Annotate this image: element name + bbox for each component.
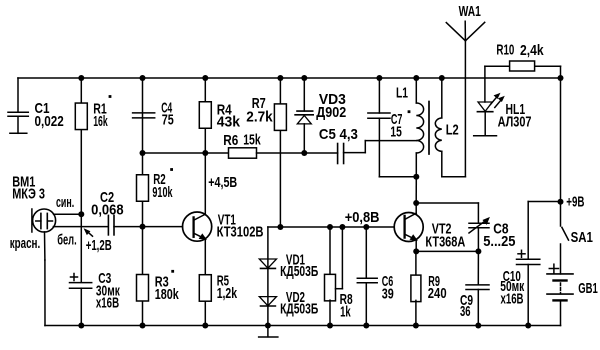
svg-text:L1: L1 — [396, 86, 408, 102]
svg-text:16k: 16k — [93, 114, 108, 130]
svg-text:+9В: +9В — [566, 194, 584, 210]
svg-text:КД503Б: КД503Б — [280, 264, 318, 280]
svg-text:R10: R10 — [496, 43, 514, 59]
svg-text:2,4k: 2,4k — [520, 43, 544, 59]
svg-text:красн.: красн. — [10, 236, 41, 252]
svg-text:75: 75 — [162, 112, 174, 128]
svg-text:х16В: х16В — [501, 291, 524, 307]
svg-text:КД503Б: КД503Б — [280, 301, 318, 317]
svg-text:R6: R6 — [223, 133, 238, 149]
svg-text:0,022: 0,022 — [35, 114, 64, 130]
svg-text:39: 39 — [382, 287, 394, 303]
svg-text:0,068: 0,068 — [91, 203, 124, 219]
svg-text:АЛ307: АЛ307 — [498, 115, 532, 131]
svg-text:х16В: х16В — [96, 296, 119, 312]
svg-text:15: 15 — [390, 125, 401, 141]
svg-text:910k: 910k — [152, 185, 173, 201]
svg-text:Д902: Д902 — [316, 105, 346, 121]
svg-text:син.: син. — [56, 195, 74, 211]
svg-text:180k: 180k — [155, 287, 180, 303]
svg-text:5...25: 5...25 — [483, 234, 515, 250]
svg-text:43k: 43k — [217, 115, 241, 131]
svg-text:SA1: SA1 — [571, 230, 593, 246]
svg-text:15k: 15k — [243, 132, 261, 148]
svg-text:GB1: GB1 — [578, 281, 598, 297]
svg-text:+0,8В: +0,8В — [345, 210, 380, 226]
svg-text:КТ368А: КТ368А — [425, 234, 465, 250]
svg-text:1k: 1k — [340, 305, 351, 321]
svg-text:1,2k: 1,2k — [217, 286, 238, 302]
svg-text:бел.: бел. — [57, 232, 76, 248]
svg-text:МКЭ 3: МКЭ 3 — [12, 186, 45, 202]
svg-text:2.7k: 2.7k — [246, 109, 273, 125]
svg-text:36: 36 — [460, 304, 471, 320]
svg-text:240: 240 — [428, 286, 447, 302]
svg-text:+1,2В: +1,2В — [86, 238, 112, 254]
svg-text:L2: L2 — [446, 123, 459, 139]
svg-text:С5 4,3: С5 4,3 — [319, 127, 358, 143]
svg-text:КТ3102В: КТ3102В — [217, 225, 264, 241]
svg-text:+4,5В: +4,5В — [208, 175, 237, 191]
svg-text:WA1: WA1 — [459, 4, 481, 20]
